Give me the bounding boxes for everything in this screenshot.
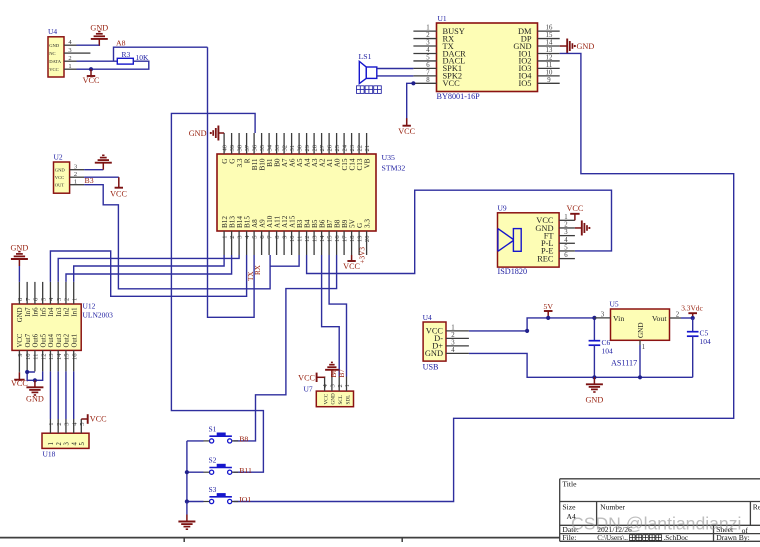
svg-text:DATA: DATA: [49, 59, 62, 64]
U1 right pin stubs: [538, 30, 560, 32]
svg-text:U35: U35: [382, 153, 396, 162]
svg-text:File:: File:: [562, 533, 576, 542]
svg-text:3: 3: [601, 311, 605, 318]
wire U12 Out3 to U18: [57, 371, 59, 419]
ground GND (U4 sensor): [98, 39, 100, 46]
svg-text:33: 33: [274, 144, 281, 151]
svg-text:2: 2: [64, 298, 71, 301]
junction S2 rail: [185, 470, 189, 474]
svg-text:U9: U9: [498, 204, 507, 213]
U2 pin stubs: [70, 169, 85, 171]
power 3.3Vdc: [692, 313, 694, 318]
svg-text:OUT: OUT: [55, 183, 65, 188]
svg-text:Out4: Out4: [48, 333, 55, 347]
svg-text:23: 23: [349, 144, 356, 151]
svg-text:1: 1: [74, 179, 77, 186]
svg-text:14: 14: [546, 40, 553, 47]
wire USB VCC to 5V rail: [469, 318, 595, 331]
svg-text:BY8001-16P: BY8001-16P: [437, 92, 481, 101]
module U7: [316, 391, 353, 407]
power VCC (U4 sensor): [90, 69, 92, 76]
ground GND (U35 pin40): [218, 132, 224, 134]
power VCC (U1): [406, 118, 408, 126]
USB pin stubs: [446, 330, 469, 332]
svg-text:U2: U2: [54, 153, 63, 162]
svg-text:1: 1: [48, 442, 55, 445]
U12 top pin stubs: [18, 282, 20, 304]
connector U18: [42, 433, 89, 448]
svg-text:16: 16: [71, 353, 78, 360]
svg-text:In4: In4: [48, 307, 55, 317]
svg-text:VCC: VCC: [110, 190, 127, 199]
wire U4 pin4 to GND: [77, 44, 100, 46]
svg-text:11: 11: [33, 354, 40, 360]
junction 3.3V node: [691, 316, 695, 320]
wire U2 pin3 to GND: [84, 169, 103, 171]
svg-text:In7: In7: [25, 307, 32, 317]
wire net B7 U35 pin15 to U7 SDL: [329, 255, 346, 377]
ground GND (U12 outputs): [34, 380, 36, 387]
wire S3 left: [187, 501, 204, 503]
U1 left pin stubs: [413, 30, 436, 32]
svg-text:GND: GND: [26, 395, 44, 404]
svg-text:8: 8: [426, 77, 430, 84]
wire R3 to VCC row: [91, 61, 149, 69]
svg-text:9: 9: [547, 77, 551, 84]
ground GND (U12 pin8): [18, 266, 20, 282]
svg-text:1: 1: [48, 423, 55, 426]
svg-text:5: 5: [564, 245, 568, 252]
wire U1 VCC pin8: [407, 83, 414, 124]
svg-text:13: 13: [312, 235, 319, 242]
svg-text:12: 12: [304, 236, 311, 243]
svg-text:31: 31: [289, 145, 296, 152]
wire LS1 to SPK2: [377, 75, 414, 77]
wire U12 Out1 to U18: [73, 371, 75, 419]
svg-text:GND: GND: [577, 42, 595, 51]
svg-text:38: 38: [237, 144, 244, 151]
svg-text:GND: GND: [17, 307, 24, 322]
junction U4 VCC: [89, 67, 93, 71]
junction U1 pin8: [411, 81, 415, 85]
svg-text:14: 14: [56, 353, 63, 360]
svg-text:16: 16: [546, 25, 553, 32]
svg-text:4: 4: [71, 442, 78, 446]
svg-text:4: 4: [564, 237, 568, 244]
ground GND (switches): [186, 502, 188, 515]
U5 pin stubs: [594, 317, 610, 319]
wire U5 Vout to 3.3V node: [681, 317, 693, 319]
sensor U4: [48, 37, 64, 77]
svg-text:R3: R3: [122, 50, 131, 59]
svg-text:S3: S3: [209, 485, 217, 494]
sheet border bottom: [0, 537, 560, 539]
wire net B14 U35 pin3 to U12 In3: [58, 255, 239, 282]
U35 bottom pin stubs: [223, 231, 225, 255]
voice-module U9 ISD1820: [498, 213, 560, 267]
svg-text:VCC: VCC: [55, 175, 64, 180]
power VCC (U7 pin4): [324, 376, 326, 379]
wire S1 left: [187, 440, 204, 442]
svg-text:1: 1: [564, 214, 567, 221]
svg-text:13: 13: [546, 47, 553, 54]
svg-text:VCC: VCC: [398, 127, 415, 136]
svg-text:+3V3: +3V3: [358, 247, 366, 264]
wire U4 pin1: [77, 68, 92, 70]
resistor R3: [117, 58, 133, 64]
svg-text:11: 11: [546, 62, 553, 69]
svg-text:GND: GND: [586, 396, 604, 405]
svg-text:LS1: LS1: [359, 52, 372, 61]
svg-text:C:\Users\..: C:\Users\..: [597, 534, 628, 542]
svg-text:U12: U12: [83, 302, 96, 311]
svg-text:Vin: Vin: [613, 314, 624, 323]
svg-text:24: 24: [342, 144, 349, 151]
power VCC (U35 pin18 5V): [351, 255, 353, 261]
svg-text:3: 3: [451, 340, 455, 347]
junction U12 GND rail: [33, 378, 37, 382]
svg-text:3.3Vdc: 3.3Vdc: [681, 304, 703, 313]
svg-text:30: 30: [297, 144, 304, 151]
wire net B15 U35 pin4 to U12 In4: [50, 251, 246, 296]
svg-text:VCC: VCC: [298, 373, 315, 382]
svg-text:Number: Number: [600, 503, 625, 512]
svg-text:STM32: STM32: [382, 164, 406, 173]
svg-text:Vout: Vout: [652, 314, 667, 323]
svg-text:VB: VB: [363, 158, 371, 168]
svg-text:3: 3: [426, 40, 430, 47]
svg-text:2: 2: [56, 423, 63, 426]
svg-text:4: 4: [426, 47, 430, 54]
junction S3 rail: [185, 499, 189, 503]
junction USB VCC corner: [525, 329, 529, 333]
svg-text:2: 2: [451, 332, 455, 339]
svg-text:VCC: VCC: [323, 393, 329, 404]
svg-text:32: 32: [282, 145, 289, 152]
svg-text:34: 34: [267, 144, 274, 151]
transistor-array U12 ULN2003: [12, 304, 81, 350]
svg-text:Size: Size: [562, 503, 576, 512]
svg-text:U5: U5: [610, 300, 619, 309]
svg-text:.SchDoc: .SchDoc: [664, 534, 689, 542]
ground GND (U9 pin2): [575, 227, 582, 229]
svg-text:2: 2: [337, 384, 344, 387]
wire U4 DATA / node A8: [77, 60, 118, 62]
wire USB GND: [469, 353, 693, 377]
svg-text:1: 1: [344, 384, 351, 387]
svg-text:2: 2: [426, 32, 430, 39]
wire U12 Out4 to U18: [49, 371, 51, 419]
U35 top pin stubs: [223, 133, 225, 154]
wire net B8 S1 to U35 pin16: [234, 255, 337, 441]
wire S2 left: [187, 471, 204, 473]
svg-text:14: 14: [319, 235, 326, 242]
svg-text:28: 28: [312, 144, 319, 151]
wire net B13 U35 pin2 to U12 In2: [66, 255, 232, 282]
U4 pin stubs: [64, 44, 77, 46]
svg-text:17: 17: [342, 235, 349, 242]
svg-text:27: 27: [319, 144, 326, 151]
wire U2 pin2 to VCC: [84, 176, 119, 178]
svg-text:GND: GND: [11, 243, 29, 252]
svg-text:VCC: VCC: [90, 415, 107, 424]
wire net B11 S2 to U35 pin36: [171, 113, 263, 472]
svg-text:19: 19: [357, 235, 364, 242]
svg-text:In2: In2: [64, 307, 71, 317]
svg-text:26: 26: [327, 144, 334, 151]
svg-text:5V: 5V: [543, 302, 553, 311]
U9 microphone symbol: [513, 229, 521, 252]
svg-text:VCC: VCC: [566, 204, 583, 213]
svg-text:U4: U4: [48, 27, 57, 36]
capacitor C6 104: [593, 318, 595, 341]
svg-text:5: 5: [79, 442, 86, 446]
svg-text:SDL: SDL: [345, 395, 351, 405]
svg-text:2: 2: [56, 442, 63, 446]
U18 pin stubs: [49, 419, 51, 433]
svg-text:GND: GND: [331, 393, 337, 404]
regulator U5 AS1117: [611, 309, 670, 340]
svg-text:SCL: SCL: [338, 395, 344, 405]
svg-text:IO5: IO5: [518, 79, 531, 88]
svg-text:18: 18: [349, 235, 356, 242]
svg-text:2: 2: [229, 236, 236, 239]
svg-text:21: 21: [364, 145, 371, 152]
svg-text:3: 3: [564, 229, 568, 236]
svg-text:6: 6: [426, 62, 430, 69]
wire U12 Out to GND rail: [27, 371, 43, 380]
power VCC (U18 pin5): [81, 418, 87, 420]
svg-text:37: 37: [244, 144, 251, 151]
svg-text:VCC: VCC: [83, 76, 100, 85]
svg-text:35: 35: [259, 144, 266, 151]
svg-text:12: 12: [40, 354, 47, 361]
svg-text:20: 20: [364, 235, 371, 242]
svg-text:36: 36: [252, 144, 259, 151]
svg-text:B7: B7: [338, 369, 346, 378]
wire net B4 U35 pin12 to U9 P-E: [307, 190, 612, 273]
svg-text:104: 104: [700, 337, 712, 346]
U9 pin stubs: [559, 219, 575, 221]
svg-text:Out3: Out3: [56, 333, 63, 347]
op-amp U35 STM32: [217, 154, 376, 231]
svg-text:7: 7: [426, 69, 430, 76]
svg-text:GND: GND: [55, 168, 66, 173]
svg-text:29: 29: [304, 144, 311, 151]
svg-text:6: 6: [564, 252, 568, 259]
svg-text:1: 1: [71, 298, 78, 301]
junction C6 bottom: [592, 375, 596, 379]
ground GND (U2): [102, 163, 104, 170]
svg-text:16: 16: [334, 235, 341, 242]
svg-text:B3: B3: [85, 176, 94, 185]
sensor U2: [54, 162, 70, 193]
title block: [560, 478, 760, 480]
svg-text:GND: GND: [425, 349, 443, 358]
svg-text:39: 39: [229, 144, 236, 151]
wire U12 Out2 to U18: [65, 371, 67, 419]
svg-text:3: 3: [64, 442, 71, 446]
svg-text:USB: USB: [423, 363, 439, 372]
svg-text:Out2: Out2: [64, 333, 71, 347]
svg-text:3: 3: [74, 164, 77, 171]
svg-text:5: 5: [426, 55, 430, 62]
svg-text:U18: U18: [43, 450, 56, 459]
wire net A8 to U35 pin5: [208, 47, 255, 317]
svg-text:S2: S2: [209, 456, 217, 465]
svg-text:22: 22: [357, 145, 364, 152]
svg-text:VCC: VCC: [11, 379, 28, 388]
junction C6 top: [592, 316, 596, 320]
op-amp U1 BY8001-16P: [437, 23, 538, 92]
svg-text:3: 3: [68, 47, 71, 54]
svg-text:NC: NC: [49, 51, 55, 56]
svg-text:GND: GND: [637, 322, 645, 338]
wire net B3 U2 to U35 pins7,11: [84, 185, 270, 289]
svg-text:15: 15: [546, 32, 553, 39]
svg-text:2: 2: [74, 171, 77, 178]
svg-text:Out1: Out1: [71, 334, 78, 348]
svg-text:10: 10: [25, 353, 32, 360]
svg-text:2: 2: [564, 222, 568, 229]
power VCC (U2): [118, 177, 120, 188]
svg-text:2: 2: [676, 311, 680, 318]
svg-text:Out7: Out7: [25, 333, 32, 347]
capacitor C5 104: [692, 318, 694, 332]
svg-text:1: 1: [426, 25, 429, 32]
svg-text:S1: S1: [209, 424, 217, 433]
wire LS1 to SPK1: [377, 68, 414, 70]
svg-text:13: 13: [48, 353, 55, 360]
svg-text:ISD1820: ISD1820: [498, 267, 528, 276]
svg-text:U1: U1: [438, 14, 447, 23]
svg-text:B8: B8: [239, 435, 248, 444]
svg-text:In6: In6: [33, 307, 40, 317]
svg-text:25: 25: [334, 144, 341, 151]
svg-text:VCC: VCC: [443, 79, 461, 88]
ground GND (U7 pin3): [331, 370, 333, 377]
svg-text:B6: B6: [330, 369, 338, 378]
svg-text:12: 12: [546, 55, 553, 62]
svg-text:GND: GND: [189, 129, 207, 138]
svg-text:U4: U4: [423, 313, 432, 322]
svg-text:1: 1: [642, 344, 645, 351]
svg-text:AS1117: AS1117: [611, 359, 637, 368]
svg-text:A8: A8: [116, 39, 126, 48]
svg-text:IO1: IO1: [239, 495, 251, 504]
svg-text:Out6: Out6: [33, 333, 40, 347]
wire switch common rail: [186, 441, 188, 502]
junction 5V stem: [546, 316, 550, 320]
svg-text:GND: GND: [49, 43, 60, 48]
svg-text:VCC: VCC: [17, 333, 24, 347]
svg-text:Title: Title: [562, 480, 577, 489]
wire net IO1 U1 pin13: [234, 53, 734, 501]
svg-text:GND: GND: [90, 24, 108, 33]
wire net B6 U35 pin14 to U7 SCL: [322, 255, 340, 377]
U12 bottom pin stubs: [18, 350, 20, 371]
ground GND (power rail): [593, 377, 595, 384]
svg-text:RX: RX: [254, 264, 262, 275]
svg-text:104: 104: [602, 347, 614, 356]
svg-text:Out5: Out5: [40, 333, 47, 347]
svg-text:In1: In1: [71, 308, 78, 317]
power 5V: [547, 311, 549, 318]
svg-text:Re: Re: [753, 503, 760, 512]
junction U12 Out7: [25, 370, 29, 374]
connector U4 USB: [423, 322, 446, 361]
svg-text:U7: U7: [304, 385, 313, 394]
svg-text:B11: B11: [239, 466, 252, 475]
wire net B12 U35 pin1 to U12 In1: [74, 255, 224, 282]
svg-text:40: 40: [222, 144, 229, 151]
power VCC (U12 pin9): [18, 370, 20, 373]
junction U5 GND rail: [638, 375, 642, 379]
ground GND (U1 pin14): [560, 45, 568, 47]
svg-text:In5: In5: [40, 307, 47, 317]
svg-text:1: 1: [222, 236, 229, 239]
power VCC (U9 pin1): [574, 214, 576, 221]
svg-text:3.3: 3.3: [363, 219, 371, 228]
wire U5 GND to rail: [639, 345, 641, 377]
svg-text:2: 2: [68, 55, 71, 62]
svg-text:15: 15: [327, 235, 334, 242]
svg-text:10: 10: [289, 235, 296, 242]
svg-text:15: 15: [64, 353, 71, 360]
svg-text:Drawn By:: Drawn By:: [716, 533, 750, 542]
U7 pin stubs: [324, 377, 326, 392]
svg-text:VCC: VCC: [49, 67, 58, 72]
wire U12 Out7-Out6 tie: [27, 370, 35, 373]
svg-text:In3: In3: [56, 307, 63, 317]
svg-text:ULN2003: ULN2003: [83, 311, 114, 320]
svg-text:10: 10: [546, 69, 553, 76]
svg-text:REC: REC: [537, 254, 554, 263]
svg-text:1: 1: [451, 325, 454, 332]
svg-text:11: 11: [297, 236, 304, 242]
svg-text:1: 1: [68, 63, 71, 70]
svg-text:4: 4: [451, 347, 455, 354]
svg-text:CSDN @lantiandianzi: CSDN @lantiandianzi: [571, 514, 741, 534]
